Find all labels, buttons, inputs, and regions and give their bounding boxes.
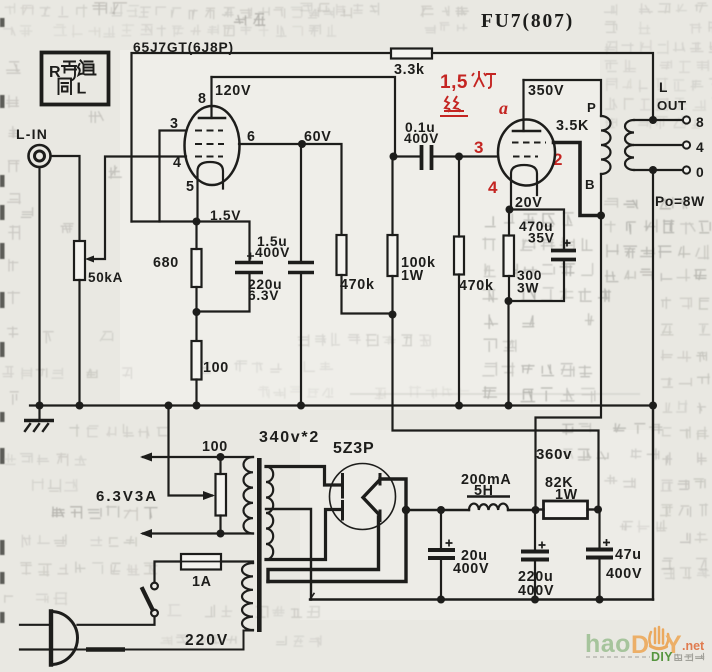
wire secondary tap 4 (634, 144, 683, 146)
fuse 1A (176, 554, 226, 570)
OPT secondary winding (625, 120, 634, 170)
svg-text:P: P (587, 100, 597, 115)
junction dot 360v node (532, 506, 540, 514)
label 120V (215, 83, 251, 99)
wire coupling left (395, 155, 419, 157)
junction dot B2 takeoff (594, 506, 602, 514)
wire 300 bottom (508, 276, 510, 301)
junction dot hum pot top (217, 453, 225, 461)
label 470k screen (340, 277, 375, 293)
node 1.5V (210, 208, 241, 223)
svg-text:1A: 1A (192, 574, 212, 590)
svg-text:0: 0 (696, 165, 704, 180)
svg-text:a: a (499, 98, 508, 118)
label 470k grid leak (459, 278, 494, 294)
5Z3P filament (363, 475, 380, 521)
junction dot coupling left (390, 153, 398, 161)
wire B2 supply run (393, 315, 599, 510)
label 47u 400V (606, 547, 642, 582)
V1 plate lead pin8 to 120V line (210, 77, 212, 118)
wire 1.5u cap to ground bus (300, 273, 302, 406)
label 340v*2 (259, 429, 320, 446)
labels 8 4 0 (696, 115, 704, 180)
transformer core (257, 458, 262, 632)
V1 grid g2 dashes (195, 143, 224, 145)
junction dot rectifier output (402, 506, 410, 514)
wire filament A to output (268, 479, 406, 582)
wire 680 top (195, 222, 197, 250)
svg-text:100: 100 (203, 360, 229, 376)
wire grid leak top (458, 157, 460, 237)
wire 220u top (534, 510, 536, 550)
V1 pin labels (170, 91, 256, 195)
tube 5Z3P envelope (330, 464, 396, 530)
wire grid leak bottom to ground (458, 275, 460, 406)
wire tap0 to ground bus (652, 170, 654, 406)
V1 grid g3 dashes (195, 130, 223, 132)
svg-text:5Z3P: 5Z3P (333, 440, 374, 457)
svg-text:.net: .net (682, 639, 705, 653)
red label 1,5 filament (440, 71, 496, 93)
wire NFB rail left (132, 53, 392, 222)
label 220u 400V (518, 569, 554, 599)
label 360v (536, 446, 572, 463)
svg-text:OUT: OUT (657, 98, 687, 113)
wire 100k bottom to B2 node (391, 276, 393, 315)
wire rectifier to choke (406, 509, 469, 511)
svg-text:100: 100 (202, 439, 228, 455)
junction dot B terminal (597, 212, 605, 220)
capacitor 1.5u 400V screen bypass (288, 263, 314, 273)
svg-text:6.3V: 6.3V (248, 288, 279, 303)
junction dot FU7 grid node (455, 153, 463, 161)
OPT primary winding (601, 116, 610, 174)
label 100k 1W (401, 255, 436, 284)
resistor 470k screen (337, 235, 347, 275)
svg-text:340v*2: 340v*2 (259, 429, 320, 446)
svg-text:DIY: DIY (651, 650, 673, 664)
svg-text:47u: 47u (615, 547, 642, 563)
capacitor 20u 400V (428, 540, 455, 559)
label Po=8W (655, 194, 705, 209)
wire filament B to 5V winding (268, 517, 379, 582)
wire hum pot bottom (219, 516, 221, 534)
junction dot 1.5V (193, 218, 201, 226)
wire 1.5V rail (132, 222, 250, 263)
wire 47u top (598, 510, 600, 548)
wire V1 plate 120V line (212, 77, 396, 157)
label 60V (304, 129, 332, 145)
switch blade (143, 589, 153, 610)
red label 4 (488, 178, 498, 197)
wire switch to fuse (155, 562, 182, 583)
wire NFB rail right (432, 53, 653, 120)
label L-IN (16, 126, 48, 142)
potentiometer 100 hum balance (216, 474, 227, 516)
svg-text:8: 8 (696, 115, 704, 130)
wire 82K left (536, 508, 544, 510)
svg-text:35V: 35V (528, 231, 555, 246)
svg-text:680: 680 (153, 255, 179, 271)
svg-text:3.5K: 3.5K (556, 118, 589, 134)
5Z3P plate 2 (341, 502, 344, 520)
svg-text:8: 8 (198, 91, 207, 107)
capacitor 220u 400V (521, 542, 549, 560)
wire heater line A (143, 456, 253, 458)
choke 200mA 5H (467, 497, 510, 511)
arrowhead hum wiper (203, 491, 215, 500)
wire 680 bottom to node (195, 287, 197, 341)
junction dot 60V (298, 140, 306, 148)
switch contacts (151, 583, 158, 617)
wire secondary tap 8 (634, 119, 683, 121)
junction dot 680/220u (193, 308, 201, 316)
resistor 82K 1W (544, 501, 588, 519)
wire 50kA bottom to ground bus (78, 280, 80, 406)
V2 cathode (511, 165, 537, 210)
svg-text:B: B (585, 177, 595, 192)
wire HT top to plate1 (266, 467, 341, 486)
V1 cathode (198, 162, 224, 222)
logo haoDIY (585, 627, 705, 664)
svg-text:5H: 5H (474, 483, 494, 499)
wire 20u top (440, 510, 442, 548)
wire cathode node to ground bus (507, 301, 509, 406)
svg-text:3W: 3W (517, 281, 539, 296)
wire L-IN sleeve to ground bus (38, 167, 40, 406)
resistor 680 cathode bias (192, 249, 202, 287)
label 5Z3P (333, 440, 374, 457)
wire V2 plate 350V line to OPT primary (524, 80, 602, 216)
potentiometer 50kA (74, 241, 85, 280)
wire B+ to choke node (536, 216, 602, 510)
resistor 100k 1W plate load (388, 235, 398, 276)
wire 82K right (588, 508, 599, 510)
wire fuse to PT primary (221, 562, 253, 564)
resistor 3.3k NFB (391, 49, 432, 59)
label P (587, 100, 597, 115)
wire 470k bottom to B2 node (342, 275, 393, 314)
junction dot B2 node (389, 311, 397, 319)
svg-text:3: 3 (474, 138, 484, 157)
label 350V (528, 83, 564, 99)
svg-text:3.3k: 3.3k (394, 62, 425, 78)
wire heater line B (143, 532, 253, 534)
svg-text:4: 4 (696, 140, 704, 155)
plug AC (20, 612, 78, 665)
junction dots bottom rail (437, 596, 604, 604)
svg-text:220V: 220V (185, 632, 229, 649)
wire V2 screen to B terminal (554, 143, 601, 216)
svg-text:120V: 120V (215, 83, 251, 99)
label 100 resistor (203, 360, 229, 376)
ground bus (30, 404, 653, 406)
resistor 300 3W cathode (504, 236, 515, 277)
label 50kA (88, 270, 123, 285)
label 3.3k (394, 62, 425, 78)
label 470u 35V (519, 219, 555, 246)
V1 plate (199, 117, 225, 120)
svg-text:350V: 350V (528, 83, 564, 99)
wire V1 suppressor to cathode (160, 131, 187, 222)
capacitor 0.1u 400V coupling (422, 145, 432, 170)
wire L-IN hot to volume pot (51, 156, 80, 241)
svg-text:hao: hao (585, 630, 631, 658)
svg-text:6.3V3A: 6.3V3A (96, 488, 158, 505)
junction dot tap8/NFB (649, 116, 657, 124)
svg-text:L: L (659, 80, 668, 95)
resistor 100 V1 cathode (192, 341, 202, 380)
junction dot 20u node (437, 506, 445, 514)
capacitor 470u 35V cathode bypass (551, 240, 576, 260)
svg-text:400V: 400V (606, 566, 642, 582)
wire 100 bottom to ground bus (195, 380, 197, 406)
red label 丝 filament2 (441, 96, 467, 116)
red label 2 (553, 150, 563, 169)
wire ground bus to PSU rail (652, 406, 654, 600)
PT heater winding 6.3V (244, 457, 254, 534)
svg-text:L-IN: L-IN (16, 126, 48, 142)
wire 60V to 470k screen feed (302, 144, 342, 235)
label 300 3W (517, 268, 542, 296)
ground symbol (24, 406, 54, 432)
wire plug to PT primary bottom (51, 631, 253, 650)
wire 20u bottom (440, 560, 442, 600)
label 6.3V3A (96, 488, 158, 505)
svg-text:FU7(807): FU7(807) (481, 11, 574, 32)
svg-text:Po=8W: Po=8W (655, 194, 705, 209)
label 20u 400V (453, 548, 489, 577)
wire secondary tap 0 (634, 169, 683, 171)
svg-text:360v: 360v (536, 446, 572, 463)
label 680 (153, 255, 179, 271)
wire coupling right (433, 155, 498, 157)
junction dot tap0 (649, 166, 657, 174)
title FU7(807) (481, 11, 574, 32)
wire hum pot wiper to ground (169, 406, 213, 496)
svg-text:D: D (631, 631, 649, 659)
wire 220u bottom (534, 562, 536, 601)
wire 47u bottom (598, 560, 600, 601)
wire 220u bottom link (197, 273, 250, 312)
PSU bottom rail (310, 594, 653, 600)
wire choke to 360v node (508, 509, 536, 511)
svg-text:1W: 1W (401, 268, 424, 284)
svg-text:400V: 400V (404, 131, 439, 146)
svg-text:6: 6 (247, 129, 256, 145)
label 220u 6.3V (248, 277, 282, 303)
PT primary winding 220V (242, 563, 253, 630)
wire 20V node to cap (510, 210, 565, 250)
terminal 0 (683, 166, 690, 173)
svg-text:400V: 400V (453, 561, 489, 577)
label 100 hum pot (202, 439, 228, 455)
V2 plate (513, 130, 540, 133)
svg-text:1W: 1W (555, 487, 578, 503)
label 0.1u 400V (404, 120, 439, 146)
wire hum pot top (219, 457, 221, 474)
junction dot hum pot bottom (217, 530, 225, 538)
wire HT bottom to plate2 (266, 510, 341, 560)
label L OUT (657, 80, 687, 113)
wire plug to switch (78, 617, 155, 625)
svg-text:5: 5 (186, 179, 195, 195)
wire 300 top (508, 210, 510, 236)
note box R声道同L (42, 53, 109, 105)
label 82K 1W (545, 475, 578, 503)
junction dot 20V node (506, 206, 514, 214)
capacitor 47u 400V (586, 539, 613, 558)
label 65J7GT(6J8P) tube V1 type (133, 40, 234, 55)
V2 grid g2 dashes (512, 142, 546, 144)
connector L-IN jack (29, 145, 51, 167)
wire V1 screen pin6 to 60V node (239, 143, 302, 145)
label 20V (515, 195, 543, 211)
label B (585, 177, 595, 192)
wire HT center tap to rail (266, 509, 311, 600)
V1 grid g1 dashes (195, 156, 223, 158)
tube V2 FU7 envelope (498, 120, 555, 186)
label 1.5u 400V (247, 234, 290, 260)
red label a anode cap (499, 98, 508, 118)
wire plate node down to 100k (391, 157, 393, 236)
junction dots on bus (36, 402, 658, 410)
svg-text:470k: 470k (459, 278, 494, 294)
capacitor 220u 6.3V plates (235, 263, 263, 273)
red label 3 (474, 138, 484, 157)
svg-text:60V: 60V (304, 129, 332, 145)
V2 plate lead to 350V line (522, 80, 524, 131)
resistor 470k grid leak (454, 237, 464, 275)
V2 grid g1 dashes (513, 156, 538, 158)
wire cathode bottom link (509, 260, 565, 301)
5Z3P plate 1 (341, 475, 344, 498)
label 220V (185, 632, 229, 649)
tube V1 6SJ7 envelope (185, 106, 240, 185)
label 1A (192, 574, 212, 590)
terminal 8 (683, 116, 690, 123)
svg-text:400V: 400V (255, 245, 290, 260)
svg-text:50kA: 50kA (88, 270, 123, 285)
label 200mA 5H (461, 472, 511, 499)
arrowhead heater A (140, 453, 152, 462)
svg-text:L: L (77, 81, 87, 98)
svg-text:1,5: 1,5 (440, 72, 468, 93)
label 3.5K (556, 118, 589, 134)
svg-text:4: 4 (488, 178, 498, 197)
wire 50kA wiper to V1 grid pin4 (85, 157, 186, 263)
terminal 4 (683, 141, 690, 148)
wire 60V node down to 1.5u cap (300, 144, 302, 262)
svg-text:470k: 470k (340, 277, 375, 293)
arrowhead heater B (140, 529, 152, 538)
junction dot cathode bottom (505, 297, 513, 305)
svg-text:4: 4 (173, 155, 182, 171)
PT HT winding 340v*2 (266, 467, 273, 560)
